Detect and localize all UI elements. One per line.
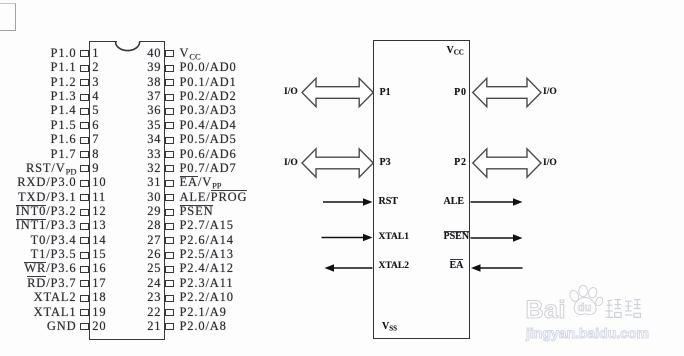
svg-text:du: du [577,302,591,314]
